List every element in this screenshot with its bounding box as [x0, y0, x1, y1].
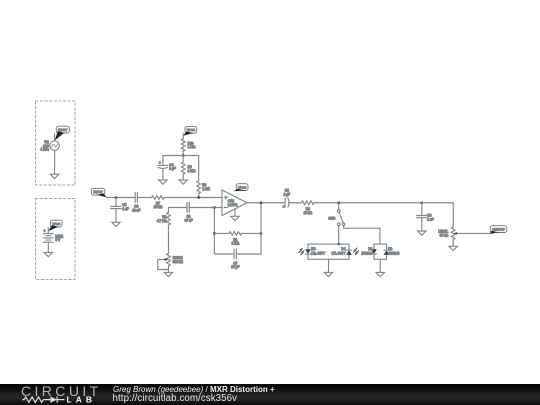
capacitor C1 47nF	[184, 203, 192, 223]
wire	[421, 218, 423, 231]
svg-text:+: +	[283, 205, 285, 209]
node bias junction	[182, 154, 184, 156]
svg-text:LTL-307Y: LTL-307Y	[311, 252, 326, 256]
svg-text:1 MΩ: 1 MΩ	[231, 242, 239, 246]
svg-text:9 V: 9 V	[55, 238, 61, 242]
svg-text:10 kΩ: 10 kΩ	[154, 205, 163, 209]
wire	[189, 207, 214, 209]
svg-text:D4: D4	[341, 247, 345, 251]
wire	[242, 232, 262, 234]
footer bar	[0, 384, 540, 405]
svg-text:INPUT: INPUT	[58, 128, 67, 132]
wire	[379, 259, 381, 272]
flag INPUT (source)	[55, 126, 70, 140]
svg-text:D1: D1	[368, 247, 372, 251]
flag INPUT (main)	[91, 188, 106, 197]
svg-text:+: +	[159, 161, 161, 165]
node junction C5	[115, 196, 117, 198]
node junction SW3	[338, 202, 340, 204]
ground (LED pair)	[324, 272, 332, 276]
ground (C3)	[418, 231, 426, 235]
resistor R2 4.7k	[157, 212, 170, 225]
wire	[213, 208, 215, 255]
capacitor C7 10pF	[231, 249, 239, 269]
wire	[314, 202, 422, 204]
wire	[452, 240, 454, 247]
ground (DRIVE)	[164, 272, 172, 276]
wire	[54, 150, 56, 174]
resistor R8 1M	[197, 181, 211, 194]
svg-text:1N4148: 1N4148	[361, 252, 372, 256]
flag VPOS (bias)	[183, 126, 197, 135]
resistor R1 1M	[229, 232, 242, 246]
svg-text:50 kΩ: 50 kΩ	[440, 233, 449, 237]
svg-text:VPOS: VPOS	[52, 222, 60, 226]
wire	[169, 207, 188, 209]
svg-text:500 kΩ: 500 kΩ	[173, 260, 184, 264]
wire	[182, 133, 184, 139]
svg-text:LAB: LAB	[67, 395, 97, 405]
svg-text:VPOS: VPOS	[187, 128, 195, 132]
wire	[328, 259, 330, 272]
wire	[348, 244, 350, 259]
potentiometer DRIVE 500k	[158, 253, 184, 269]
wire	[421, 203, 423, 216]
ground (1N4148 pair)	[376, 272, 384, 276]
node junction output	[260, 202, 262, 204]
dashed box signal source	[36, 101, 76, 185]
wire	[260, 203, 262, 254]
wire	[386, 244, 388, 259]
resistor R10 1M	[181, 139, 196, 152]
wire	[115, 198, 117, 207]
wire	[198, 193, 200, 197]
wire	[307, 244, 309, 259]
battery BAT1 9V	[43, 229, 63, 242]
flag VPOS (op-amp)	[233, 184, 248, 192]
wire	[54, 134, 56, 141]
svg-text:D3: D3	[311, 247, 315, 251]
wire	[338, 226, 340, 244]
svg-text:1 MΩ: 1 MΩ	[188, 169, 196, 173]
potentiometer LEVEL 50k	[438, 227, 457, 240]
op-amp OA1 LM741	[222, 190, 247, 216]
dashed box battery	[36, 199, 76, 280]
wire	[168, 225, 170, 254]
svg-text:D2: D2	[388, 247, 392, 251]
svg-text:47 nF: 47 nF	[184, 218, 192, 222]
capacitor C4 1uF polarized	[158, 161, 176, 171]
svg-text:LTL-307Y: LTL-307Y	[332, 252, 347, 256]
flag VPOS (battery)	[48, 220, 62, 231]
wire	[338, 203, 340, 210]
node junction LED top	[338, 243, 340, 245]
svg-text:LM741: LM741	[228, 203, 238, 207]
wire	[308, 258, 349, 260]
switch SW3	[328, 210, 345, 226]
wire	[457, 232, 493, 234]
ground (op-amp)	[231, 216, 239, 220]
ground (battery)	[44, 252, 52, 256]
wire	[374, 258, 387, 260]
wire	[115, 209, 117, 223]
ground (LEVEL)	[449, 246, 457, 250]
wire	[168, 266, 170, 273]
svg-text:1 nF: 1 nF	[427, 217, 433, 221]
wire	[247, 202, 285, 204]
CircuitLab logo	[0, 384, 110, 405]
ground (source)	[50, 174, 58, 178]
ground (C5)	[112, 222, 120, 226]
wire	[164, 197, 222, 199]
svg-text:1 MΩ: 1 MΩ	[202, 187, 210, 191]
svg-text:1 MΩ: 1 MΩ	[188, 145, 196, 149]
source V1 sine	[41, 140, 60, 151]
capacitor C2 1uF polarized	[283, 189, 290, 209]
svg-text:OUTPUT: OUTPUT	[492, 228, 505, 232]
svg-text:INPUT: INPUT	[94, 190, 103, 194]
resistor R7 10k	[152, 196, 165, 209]
node junction inverting input	[213, 206, 215, 208]
svg-text:10 nF: 10 nF	[132, 209, 140, 213]
wire	[182, 151, 184, 155]
wire	[373, 244, 375, 259]
svg-text:10 pF: 10 pF	[231, 265, 239, 269]
node junction R1 left	[213, 232, 215, 234]
node junction C3	[421, 202, 423, 204]
svg-text:1N4148: 1N4148	[388, 252, 399, 256]
svg-text:SW3: SW3	[328, 217, 335, 221]
wire	[234, 209, 236, 216]
wire	[47, 227, 49, 233]
wire	[422, 203, 453, 227]
svg-text:+: +	[44, 229, 46, 233]
diode D2 1N4148	[384, 247, 400, 256]
svg-text:1 µF: 1 µF	[284, 192, 290, 196]
wire	[198, 156, 200, 181]
wire	[214, 232, 229, 234]
wire	[162, 169, 164, 180]
wire	[308, 243, 349, 245]
wire	[106, 197, 135, 199]
wire	[168, 208, 170, 213]
capacitor C6 10nF	[132, 193, 140, 213]
ground (C4)	[159, 180, 167, 184]
wire	[47, 242, 49, 252]
wire	[236, 253, 261, 255]
wire	[289, 202, 302, 204]
wire	[163, 155, 199, 157]
ground (R9)	[179, 180, 187, 184]
wire	[344, 226, 380, 244]
diode D3 LTL-307Y	[298, 247, 326, 256]
wire	[214, 253, 234, 255]
wire	[214, 207, 222, 209]
svg-text:1 nF: 1 nF	[122, 207, 128, 211]
svg-text:4.7 kΩ: 4.7 kΩ	[157, 219, 167, 223]
wire	[374, 243, 387, 245]
node junction R1 right	[260, 232, 262, 234]
svg-text:VPOS: VPOS	[238, 186, 246, 190]
diode D4 LTL-307Y	[332, 247, 360, 256]
wire	[137, 197, 151, 199]
resistor R9 1M	[181, 162, 196, 175]
flag OUTPUT	[490, 226, 507, 234]
capacitor C5 1nF	[111, 203, 129, 211]
resistor R4 10k	[302, 201, 315, 215]
capacitor C3 1nF	[417, 214, 434, 222]
svg-text:1 µF: 1 µF	[169, 167, 175, 171]
wire	[182, 156, 184, 180]
node junction R8	[198, 196, 200, 198]
diode D1 1N4148	[361, 247, 377, 256]
svg-text:10 kΩ: 10 kΩ	[304, 211, 313, 215]
wire	[162, 156, 164, 166]
svg-text:1 kHz: 1 kHz	[41, 147, 50, 151]
